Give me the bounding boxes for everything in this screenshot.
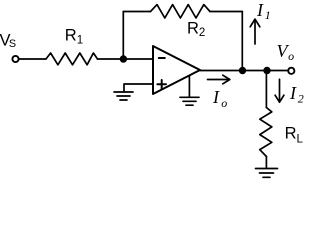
op-amp U1 — [153, 46, 200, 94]
ground — [256, 169, 278, 178]
current arrow I2 — [275, 79, 284, 102]
wire — [123, 11, 150, 13]
wire — [19, 58, 46, 60]
wire — [98, 58, 154, 60]
wire — [124, 84, 153, 91]
ground — [114, 92, 133, 100]
resistor R1 — [46, 53, 98, 65]
resistor R2 — [151, 5, 211, 18]
node A — [120, 55, 127, 62]
wire — [241, 12, 243, 71]
resistor RL — [260, 108, 272, 157]
wire — [265, 71, 267, 108]
ground — [180, 97, 199, 105]
wire — [188, 76, 190, 97]
current arrow Io — [208, 75, 230, 84]
wire — [200, 70, 288, 72]
current arrow I1 — [250, 19, 260, 44]
terminal Vo — [288, 68, 294, 74]
wire — [122, 12, 124, 60]
node B — [239, 67, 246, 74]
wire — [265, 157, 267, 169]
wire — [210, 11, 242, 13]
node C — [263, 67, 270, 74]
terminal Vs — [12, 56, 18, 62]
